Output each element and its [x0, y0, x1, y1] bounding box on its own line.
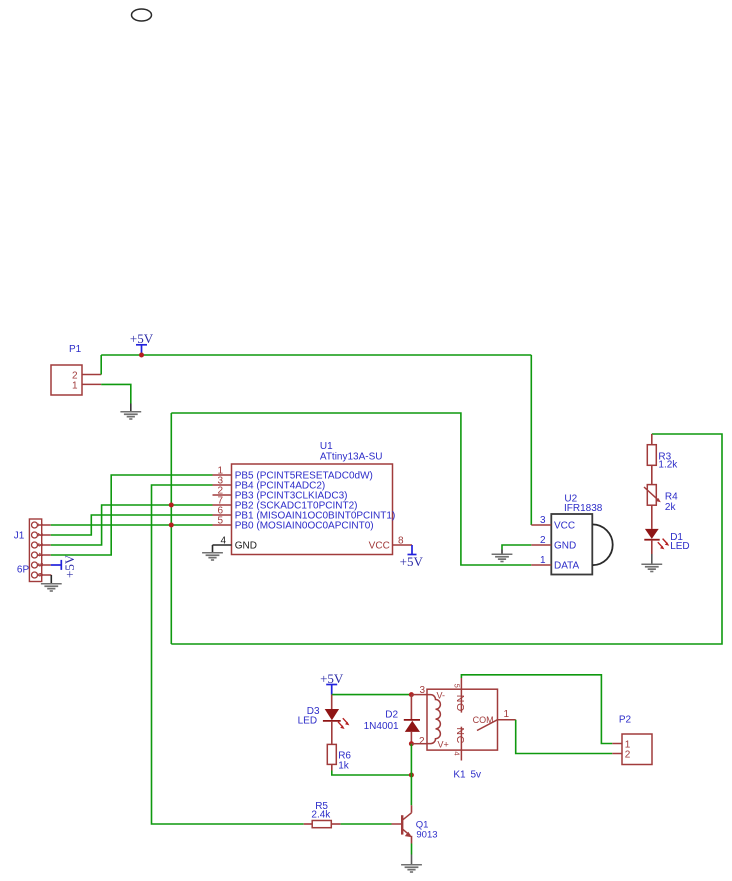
- U1 pin 7 PB2: [213, 496, 358, 512]
- svg-text:V-: V-: [437, 691, 446, 701]
- wire relay COM to P2 pin2: [516, 720, 613, 754]
- svg-text:NC: NC: [454, 727, 466, 744]
- ground P1: [120, 404, 141, 420]
- junction coil minus: [409, 741, 414, 746]
- wire J1 pin2 to U1 PB1: [51, 515, 213, 535]
- relay coil: [427, 695, 440, 744]
- U1 pin 1 PB5: [213, 466, 373, 482]
- supply +5V symbol at J1 pin 5 (rotated): [51, 554, 77, 578]
- wire P1 pin1 to ground: [101, 384, 131, 403]
- svg-text:5: 5: [217, 516, 223, 527]
- svg-text:3: 3: [540, 515, 546, 526]
- svg-text:5v: 5v: [471, 770, 482, 781]
- svg-text:GND: GND: [554, 540, 576, 551]
- svg-text:4: 4: [36, 553, 45, 557]
- svg-text:5: 5: [452, 684, 461, 688]
- wire J1 pin1 to U1 PB0: [51, 524, 213, 526]
- svg-text:2.4k: 2.4k: [311, 810, 331, 821]
- svg-text:1.2k: 1.2k: [658, 460, 678, 471]
- led D1: [644, 505, 689, 554]
- U1 pin 3 PB4: [213, 476, 326, 492]
- U1 pin 2 PB3: [213, 486, 348, 502]
- svg-text:2k: 2k: [665, 502, 677, 513]
- resistor R3: [647, 434, 678, 471]
- wire +5V to relay coil: [332, 694, 412, 696]
- svg-text:PB0 (MOSIAIN0OC0APCINT0): PB0 (MOSIAIN0OC0APCINT0): [235, 520, 374, 531]
- svg-text:1k: 1k: [338, 760, 350, 771]
- wire J1 pin3 to U1 PB2: [51, 505, 213, 545]
- U2 pin 1 DATA: [531, 555, 579, 572]
- svg-text:9013: 9013: [416, 829, 437, 840]
- relay pin 4 NC: [452, 727, 466, 761]
- svg-text:2: 2: [540, 535, 546, 546]
- svg-text:VCC: VCC: [554, 520, 575, 531]
- J1 pin 3: [32, 542, 51, 548]
- connector P2: [619, 715, 652, 765]
- wire Q1 emitter to ground: [411, 844, 413, 855]
- svg-text:GND: GND: [235, 541, 257, 552]
- supply +5V symbol top: [130, 331, 154, 355]
- wire U2 VCC from rail: [530, 355, 532, 525]
- junction PB2 net: [169, 503, 174, 508]
- connector P1: [51, 344, 82, 395]
- relay pin 3: [411, 685, 445, 700]
- wire J1 pin4 to U1 PB5: [51, 475, 213, 555]
- svg-text:+5V: +5V: [400, 554, 424, 569]
- ic U1 box: [232, 441, 393, 555]
- svg-text:IFR1838: IFR1838: [564, 503, 603, 514]
- supply +5V symbol bottom: [320, 671, 344, 695]
- svg-text:+5V: +5V: [130, 331, 154, 346]
- svg-text:K1: K1: [453, 770, 466, 781]
- wire left loop vertical: [170, 413, 172, 644]
- wire U2 GND to ground: [502, 545, 531, 550]
- wire R6 bottom to collector net: [332, 771, 412, 776]
- J1 pin 6: [32, 572, 52, 578]
- U1 pin 6 PB1: [213, 506, 396, 522]
- wire bottom loop: [171, 434, 722, 644]
- led D3: [298, 695, 350, 745]
- svg-text:D2: D2: [385, 710, 398, 721]
- J1 pin 1: [32, 522, 51, 528]
- relay pin 2: [411, 736, 448, 750]
- svg-text:ATtiny13A-SU: ATtiny13A-SU: [320, 452, 383, 463]
- wire D2 anode to collector junction: [410, 744, 412, 775]
- P1 pin 1: [72, 380, 101, 391]
- svg-text:P1: P1: [69, 344, 82, 355]
- svg-text:6P: 6P: [17, 565, 30, 576]
- junction collector net: [409, 773, 414, 778]
- svg-text:3: 3: [36, 543, 45, 547]
- junction at +5V rail: [139, 353, 144, 358]
- svg-text:3: 3: [419, 685, 425, 696]
- P2 pin 2: [612, 750, 631, 761]
- ground U2: [492, 550, 513, 563]
- transistor Q1: [392, 805, 438, 843]
- wire P1 pin2 to +5V rail: [100, 355, 102, 375]
- svg-text:J1: J1: [14, 531, 25, 542]
- ground U1: [202, 545, 223, 561]
- svg-text:6: 6: [36, 573, 45, 577]
- svg-text:U1: U1: [320, 441, 333, 452]
- svg-text:P2: P2: [619, 715, 632, 726]
- U1 pin 5 PB0: [213, 516, 374, 532]
- junction PB0 net: [169, 523, 174, 528]
- U1 pin 4 GND: [213, 536, 257, 552]
- svg-text:4: 4: [452, 751, 461, 755]
- ground D1: [641, 554, 662, 572]
- J1 pin 5: [32, 562, 51, 568]
- svg-text:1: 1: [36, 523, 45, 527]
- svg-text:8: 8: [398, 536, 404, 547]
- diode D2 1N4001: [364, 695, 420, 744]
- svg-text:1: 1: [72, 380, 78, 391]
- wire junction down to Q1 collector: [410, 775, 412, 805]
- svg-text:2: 2: [625, 750, 631, 761]
- svg-text:4: 4: [220, 536, 226, 547]
- wire data net top: [171, 413, 531, 565]
- svg-text:R4: R4: [665, 492, 678, 503]
- svg-text:1: 1: [540, 555, 546, 566]
- wire relay NO to P2 pin1: [461, 675, 612, 744]
- svg-text:LED: LED: [670, 541, 689, 552]
- U1 pin 8 VCC: [369, 536, 412, 552]
- J1 pin 4: [32, 552, 51, 558]
- supply +5V symbol at U1 pin 8: [400, 545, 424, 569]
- J1 pin 2: [32, 532, 51, 538]
- ground J1 pin 6: [41, 575, 62, 592]
- wire R5 to Q1 base: [341, 823, 392, 825]
- junction coil plus: [409, 692, 414, 697]
- ic U2 box: [551, 494, 612, 575]
- relay pin 1 COM: [473, 709, 516, 731]
- relay K1: [427, 689, 498, 780]
- wire PB4 down-left to R5: [152, 485, 304, 824]
- svg-text:VCC: VCC: [369, 541, 390, 552]
- ellipse marker: [132, 9, 152, 21]
- P1 pin 2: [72, 371, 101, 382]
- connector J1: [14, 519, 42, 582]
- resistor R6: [327, 744, 351, 771]
- U2 pin 3 VCC: [531, 515, 575, 532]
- svg-text:1N4001: 1N4001: [364, 721, 399, 732]
- svg-text:1: 1: [504, 709, 510, 720]
- P2 pin 1: [612, 740, 631, 751]
- svg-text:NO: NO: [454, 695, 466, 712]
- svg-text:2: 2: [419, 736, 425, 747]
- U2 pin 2 GND: [531, 535, 576, 552]
- svg-text:2: 2: [36, 533, 45, 537]
- resistor R5: [304, 801, 341, 828]
- svg-text:V+: V+: [438, 740, 449, 750]
- ground Q1: [401, 855, 422, 873]
- svg-text:LED: LED: [298, 715, 317, 726]
- svg-text:5: 5: [36, 563, 45, 567]
- relay pin 5 NO: [452, 678, 466, 713]
- svg-text:DATA: DATA: [554, 560, 580, 571]
- wire +5V rail: [101, 354, 531, 356]
- resistor R4 (adjustable): [644, 465, 678, 513]
- svg-text:+5V: +5V: [62, 554, 77, 578]
